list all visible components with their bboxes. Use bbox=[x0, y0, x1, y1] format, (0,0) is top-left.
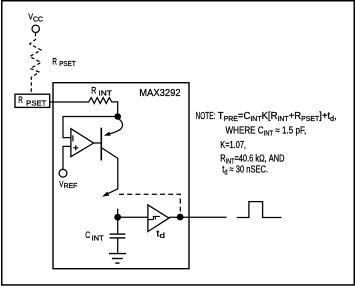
svg-text:INT: INT bbox=[92, 234, 104, 243]
svg-text:MAX3292: MAX3292 bbox=[139, 87, 181, 99]
svg-text:PSET: PSET bbox=[26, 98, 47, 107]
svg-text:CC: CC bbox=[33, 17, 43, 24]
svg-text:REF: REF bbox=[64, 181, 78, 190]
svg-text:d: d bbox=[160, 231, 165, 240]
svg-text:R: R bbox=[18, 95, 23, 105]
svg-text:K=1.07,: K=1.07, bbox=[220, 140, 246, 151]
svg-text:INT: INT bbox=[98, 88, 112, 97]
svg-text:R: R bbox=[52, 56, 57, 66]
svg-text:C: C bbox=[85, 230, 90, 240]
svg-text:R: R bbox=[91, 85, 96, 95]
svg-text:td ≈ 30 nSEC.: td ≈ 30 nSEC. bbox=[222, 165, 268, 177]
svg-text:PSET: PSET bbox=[59, 59, 76, 68]
svg-text:NOTE:: NOTE: bbox=[196, 111, 216, 122]
